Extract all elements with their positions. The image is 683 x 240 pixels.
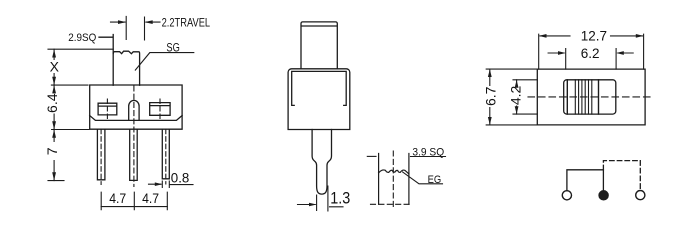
central vertical centerline xyxy=(133,86,135,187)
front view body outline xyxy=(90,85,182,129)
detail view side lines xyxy=(379,154,409,205)
svg-text:6.7: 6.7 xyxy=(482,86,498,106)
0.8 dimension xyxy=(149,183,194,185)
6.2 arrowheads xyxy=(558,51,624,55)
svg-text:4.2: 4.2 xyxy=(508,85,524,105)
dim line 7 segment xyxy=(53,130,55,181)
right leg centerline xyxy=(165,129,167,184)
top view horizontal centerline xyxy=(528,96,651,98)
6.2 dimension xyxy=(566,49,616,70)
svg-text:12.7: 12.7 xyxy=(581,28,607,43)
svg-text:6.4: 6.4 xyxy=(44,93,60,113)
left terminal hole xyxy=(98,103,117,115)
2.2TRAVEL extension lines xyxy=(126,16,144,40)
svg-text:X: X xyxy=(50,59,60,75)
right hole centerline xyxy=(159,99,161,121)
6.7 dimension xyxy=(486,69,537,125)
EG leader xyxy=(403,172,443,184)
3.9 SQ underline xyxy=(411,156,446,158)
svg-text:EG: EG xyxy=(428,174,442,186)
schematic dashed wire xyxy=(603,161,640,191)
side view body outline xyxy=(288,69,350,130)
left leg centerline xyxy=(100,129,102,184)
4.7 dimension ticks xyxy=(101,192,167,210)
1.3 dimension xyxy=(298,186,344,211)
schematic terminal 1 (open) xyxy=(562,191,571,200)
schematic terminal 2 (common, filled) xyxy=(599,191,608,200)
2.9SQ extension line xyxy=(99,35,113,54)
top view slot xyxy=(564,80,616,114)
tick body bottom level xyxy=(52,129,89,131)
left leg xyxy=(97,129,105,180)
side view cover lip xyxy=(292,71,347,105)
svg-text:0.8: 0.8 xyxy=(171,170,190,186)
middle leg xyxy=(130,129,138,180)
detail view centerline xyxy=(392,151,394,208)
side view terminal leg xyxy=(312,130,331,195)
body seam line with chamfers xyxy=(90,116,182,121)
dim line 6.4 segment xyxy=(53,85,55,129)
detail view knurled top wave xyxy=(379,170,409,174)
svg-text:3.9 SQ: 3.9 SQ xyxy=(412,146,444,158)
tick knob top level xyxy=(48,48,113,50)
dim line X segment xyxy=(53,49,55,85)
tick body top level xyxy=(51,84,88,86)
side view knob xyxy=(301,22,337,69)
top view knob edges xyxy=(567,80,598,114)
svg-text:1.3: 1.3 xyxy=(330,189,350,207)
tick leg bottom level xyxy=(48,180,64,182)
SG leader xyxy=(135,53,194,71)
svg-text:4.7: 4.7 xyxy=(142,190,159,206)
right leg xyxy=(162,129,169,179)
top view knob knurl lines xyxy=(575,80,592,114)
6.7 arrowheads xyxy=(488,69,492,125)
central arch (rivet) xyxy=(129,100,139,119)
right terminal hole xyxy=(150,103,170,116)
1.3 arrowhead xyxy=(309,203,317,207)
4.2 arrowheads xyxy=(515,80,519,114)
12.7 dimension xyxy=(539,34,644,69)
top view outer rectangle xyxy=(537,69,645,125)
schematic terminal 3 (open) xyxy=(636,191,645,200)
schematic solid wire xyxy=(567,170,604,191)
4.2 dimension xyxy=(513,80,537,114)
front view knob (actuator) with knurled top xyxy=(113,51,139,85)
detail view left tick xyxy=(367,155,376,157)
2.2TRAVEL arrowheads xyxy=(118,20,153,24)
12.7 arrowheads xyxy=(539,34,644,38)
svg-text:4.7: 4.7 xyxy=(109,190,126,206)
arrowheads on X column xyxy=(52,49,56,180)
left hole centerline xyxy=(106,99,108,121)
detail view bottom dashed line xyxy=(371,203,413,205)
svg-text:SG: SG xyxy=(166,40,179,54)
svg-text:7: 7 xyxy=(44,147,60,155)
X dimension column xyxy=(48,49,113,180)
svg-text:2.9SQ: 2.9SQ xyxy=(68,32,96,44)
2.2TRAVEL arrow lines xyxy=(111,21,161,23)
0.8 arrowhead xyxy=(155,182,163,186)
svg-text:2.2TRAVEL: 2.2TRAVEL xyxy=(162,16,211,30)
4.7 dimension line xyxy=(101,206,167,208)
svg-text:6.2: 6.2 xyxy=(581,46,600,61)
